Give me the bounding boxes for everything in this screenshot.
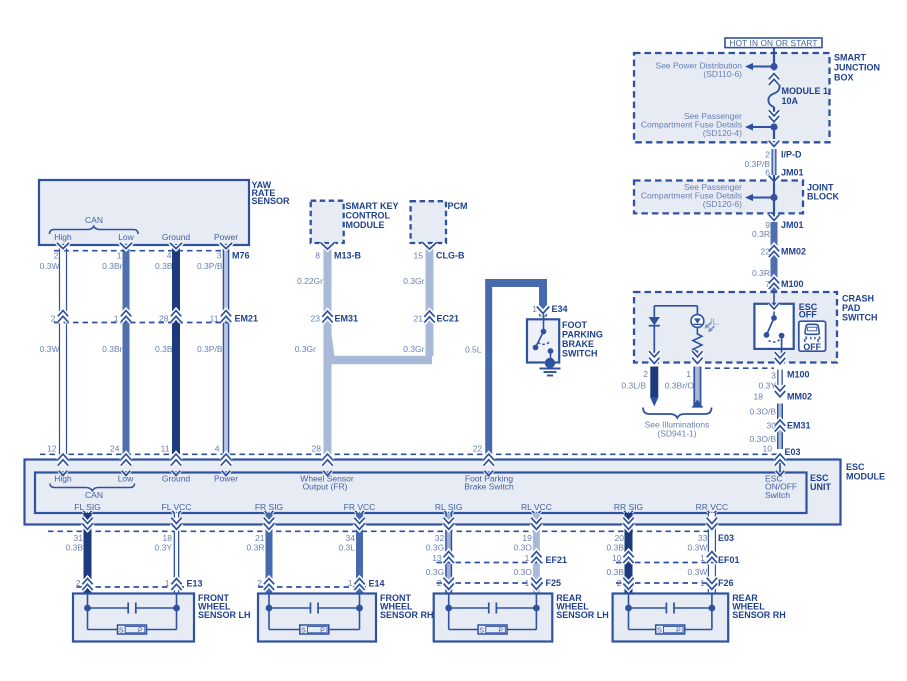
svg-text:RR SIG: RR SIG	[614, 502, 643, 512]
svg-text:(SD120-6): (SD120-6)	[703, 199, 742, 209]
svg-text:OFF: OFF	[803, 342, 821, 352]
svg-text:EF01: EF01	[718, 555, 740, 565]
svg-text:F25: F25	[546, 578, 562, 588]
svg-text:0.3B: 0.3B	[607, 543, 625, 553]
svg-text:20: 20	[615, 533, 625, 543]
svg-text:4: 4	[167, 251, 172, 261]
svg-text:High: High	[54, 474, 72, 484]
svg-text:1: 1	[165, 578, 170, 588]
svg-text:M76: M76	[232, 251, 250, 261]
svg-text:UNIT: UNIT	[810, 482, 831, 492]
svg-text:0.3Gr: 0.3Gr	[295, 344, 316, 354]
svg-text:31: 31	[74, 533, 84, 543]
svg-text:24: 24	[110, 444, 120, 454]
svg-text:30: 30	[767, 421, 777, 431]
svg-text:EM31: EM31	[335, 314, 359, 324]
svg-text:FR SIG: FR SIG	[255, 502, 283, 512]
svg-text:E34: E34	[552, 304, 568, 314]
svg-text:SENSOR RH: SENSOR RH	[380, 610, 434, 620]
svg-text:EM21: EM21	[235, 314, 259, 324]
svg-text:PARKING: PARKING	[562, 330, 603, 340]
svg-text:SMART: SMART	[834, 53, 866, 63]
svg-text:CRASH: CRASH	[842, 294, 874, 304]
svg-text:RR VCC: RR VCC	[696, 502, 729, 512]
svg-text:1: 1	[348, 578, 353, 588]
svg-text:0.3W: 0.3W	[688, 543, 708, 553]
svg-text:2: 2	[54, 251, 59, 261]
svg-text:SENSOR: SENSOR	[252, 196, 291, 206]
svg-text:SMART KEY: SMART KEY	[346, 201, 399, 211]
svg-text:11: 11	[210, 314, 219, 324]
svg-text:(SD941-1): (SD941-1)	[657, 429, 696, 439]
svg-text:0.3O/B: 0.3O/B	[750, 407, 777, 417]
svg-text:0.3L/B: 0.3L/B	[621, 380, 646, 390]
svg-text:E03: E03	[718, 533, 734, 543]
svg-text:Ground: Ground	[162, 474, 191, 484]
svg-text:0.3P/B: 0.3P/B	[197, 261, 223, 271]
svg-text:PAD: PAD	[842, 303, 861, 313]
svg-text:P: P	[320, 628, 325, 635]
svg-text:BRAKE: BRAKE	[562, 339, 594, 349]
svg-text:IL.: IL.	[710, 317, 719, 327]
svg-text:M13-B: M13-B	[334, 251, 362, 261]
svg-text:0.3O: 0.3O	[513, 567, 532, 577]
svg-text:CONTROL: CONTROL	[346, 211, 391, 221]
svg-text:2: 2	[51, 314, 56, 324]
svg-text:MODULE 1: MODULE 1	[782, 86, 829, 96]
svg-text:34: 34	[346, 533, 356, 543]
svg-text:19: 19	[522, 533, 532, 543]
svg-text:HOT IN ON OR START: HOT IN ON OR START	[729, 38, 817, 48]
svg-text:0.3Br/O: 0.3Br/O	[665, 380, 695, 390]
svg-text:P: P	[676, 628, 681, 635]
svg-text:2: 2	[765, 150, 770, 160]
svg-text:15: 15	[414, 251, 424, 261]
svg-text:0.3Gr: 0.3Gr	[403, 276, 424, 286]
svg-text:1: 1	[686, 369, 691, 379]
svg-text:Low: Low	[118, 474, 134, 484]
svg-text:13: 13	[432, 553, 442, 563]
svg-text:10A: 10A	[782, 96, 799, 106]
svg-text:E03: E03	[785, 447, 801, 457]
svg-text:22: 22	[473, 444, 483, 454]
svg-text:28: 28	[312, 444, 322, 454]
svg-text:M100: M100	[781, 279, 804, 289]
svg-text:1: 1	[700, 578, 705, 588]
svg-text:Output (FR): Output (FR)	[303, 482, 348, 492]
svg-text:2: 2	[76, 578, 81, 588]
svg-text:CAN: CAN	[85, 215, 103, 225]
svg-text:7: 7	[765, 279, 770, 289]
svg-text:0.3R: 0.3R	[752, 268, 770, 278]
svg-text:S: S	[119, 628, 124, 635]
svg-text:0.3W: 0.3W	[40, 344, 60, 354]
svg-text:SENSOR RH: SENSOR RH	[732, 610, 786, 620]
svg-text:18: 18	[754, 392, 764, 402]
svg-text:2: 2	[617, 578, 622, 588]
svg-text:1: 1	[114, 314, 119, 324]
svg-text:JM01: JM01	[781, 220, 804, 230]
svg-text:0.3Y: 0.3Y	[155, 543, 173, 553]
svg-text:Ground: Ground	[162, 232, 191, 242]
svg-text:3: 3	[771, 371, 776, 381]
svg-text:MM02: MM02	[781, 247, 806, 257]
svg-text:0.3P/B: 0.3P/B	[197, 344, 223, 354]
svg-text:MM02: MM02	[787, 392, 812, 402]
svg-text:FR VCC: FR VCC	[344, 502, 376, 512]
svg-text:8: 8	[315, 251, 320, 261]
svg-text:3: 3	[217, 251, 222, 261]
svg-text:28: 28	[159, 314, 169, 324]
svg-text:0.3G: 0.3G	[426, 543, 444, 553]
svg-text:10: 10	[763, 444, 773, 454]
svg-text:RL SIG: RL SIG	[435, 502, 463, 512]
svg-text:11: 11	[161, 444, 170, 454]
svg-text:EF21: EF21	[546, 555, 568, 565]
svg-text:0.3B: 0.3B	[66, 543, 84, 553]
svg-text:0.3O/B: 0.3O/B	[750, 434, 777, 444]
svg-text:FL SIG: FL SIG	[74, 502, 101, 512]
svg-text:E13: E13	[187, 579, 203, 589]
svg-text:OFF: OFF	[799, 310, 817, 320]
svg-text:1: 1	[117, 251, 122, 261]
svg-text:I/P-D: I/P-D	[781, 150, 802, 160]
svg-text:MODULE: MODULE	[846, 472, 885, 482]
svg-text:2: 2	[257, 578, 262, 588]
svg-text:0.3B: 0.3B	[155, 261, 173, 271]
svg-text:S: S	[301, 628, 306, 635]
svg-text:(SD120-4): (SD120-4)	[703, 128, 742, 138]
svg-text:0.3G: 0.3G	[426, 567, 444, 577]
svg-text:SENSOR LH: SENSOR LH	[556, 610, 609, 620]
svg-text:0.22Gr: 0.22Gr	[297, 276, 323, 286]
svg-text:23: 23	[311, 314, 321, 324]
svg-text:P: P	[498, 628, 503, 635]
svg-text:EC21: EC21	[437, 314, 460, 324]
svg-text:ESC: ESC	[846, 462, 865, 472]
svg-text:32: 32	[435, 533, 445, 543]
svg-text:SENSOR LH: SENSOR LH	[198, 610, 251, 620]
svg-text:18: 18	[163, 533, 173, 543]
svg-text:PCM: PCM	[448, 201, 468, 211]
svg-text:0.3R: 0.3R	[752, 229, 770, 239]
svg-text:JUNCTION: JUNCTION	[834, 63, 880, 73]
svg-text:0.3Gr: 0.3Gr	[403, 344, 424, 354]
svg-text:0.3R: 0.3R	[247, 543, 265, 553]
svg-text:0.3B: 0.3B	[155, 344, 173, 354]
svg-text:High: High	[54, 232, 72, 242]
svg-text:0.3B: 0.3B	[607, 567, 625, 577]
svg-text:FL VCC: FL VCC	[162, 502, 192, 512]
svg-text:RL VCC: RL VCC	[521, 502, 552, 512]
svg-text:2: 2	[643, 369, 648, 379]
svg-text:0.3Br: 0.3Br	[102, 344, 122, 354]
svg-text:MODULE: MODULE	[346, 220, 385, 230]
svg-text:1: 1	[700, 553, 705, 563]
svg-text:12: 12	[47, 444, 57, 454]
svg-text:Switch: Switch	[765, 490, 790, 500]
svg-text:1: 1	[525, 578, 530, 588]
svg-text:2: 2	[437, 578, 442, 588]
svg-text:Brake Switch: Brake Switch	[464, 482, 514, 492]
svg-text:Low: Low	[118, 232, 134, 242]
svg-text:0.3W: 0.3W	[688, 567, 708, 577]
svg-text:21: 21	[255, 533, 265, 543]
svg-text:CLG-B: CLG-B	[436, 251, 465, 261]
svg-text:JM01: JM01	[781, 168, 804, 178]
svg-text:E14: E14	[369, 579, 385, 589]
svg-text:1: 1	[532, 304, 537, 314]
svg-text:BOX: BOX	[834, 73, 854, 83]
svg-text:FOOT: FOOT	[562, 320, 587, 330]
svg-text:0.3W: 0.3W	[40, 261, 60, 271]
svg-text:P: P	[138, 628, 143, 635]
svg-text:0.3O: 0.3O	[513, 543, 532, 553]
svg-text:S: S	[657, 628, 662, 635]
svg-text:(SD110-6): (SD110-6)	[703, 69, 742, 79]
svg-text:SWITCH: SWITCH	[842, 313, 878, 323]
svg-text:F26: F26	[718, 578, 734, 588]
svg-text:CAN: CAN	[85, 490, 103, 500]
svg-text:0.3Y: 0.3Y	[759, 380, 777, 390]
svg-text:BLOCK: BLOCK	[807, 192, 839, 202]
svg-text:22: 22	[761, 247, 771, 257]
svg-text:1: 1	[525, 553, 530, 563]
svg-text:0.3Br: 0.3Br	[102, 261, 122, 271]
svg-text:EM31: EM31	[787, 421, 811, 431]
svg-text:10: 10	[612, 553, 622, 563]
svg-text:21: 21	[414, 314, 424, 324]
svg-text:M100: M100	[787, 370, 810, 380]
svg-text:Power: Power	[214, 474, 238, 484]
svg-text:0.5L: 0.5L	[465, 345, 482, 355]
svg-text:S: S	[479, 628, 484, 635]
svg-text:0.3L: 0.3L	[338, 543, 355, 553]
svg-text:SWITCH: SWITCH	[562, 349, 598, 359]
svg-text:33: 33	[698, 533, 708, 543]
svg-text:4: 4	[215, 444, 220, 454]
svg-text:Power: Power	[214, 232, 238, 242]
